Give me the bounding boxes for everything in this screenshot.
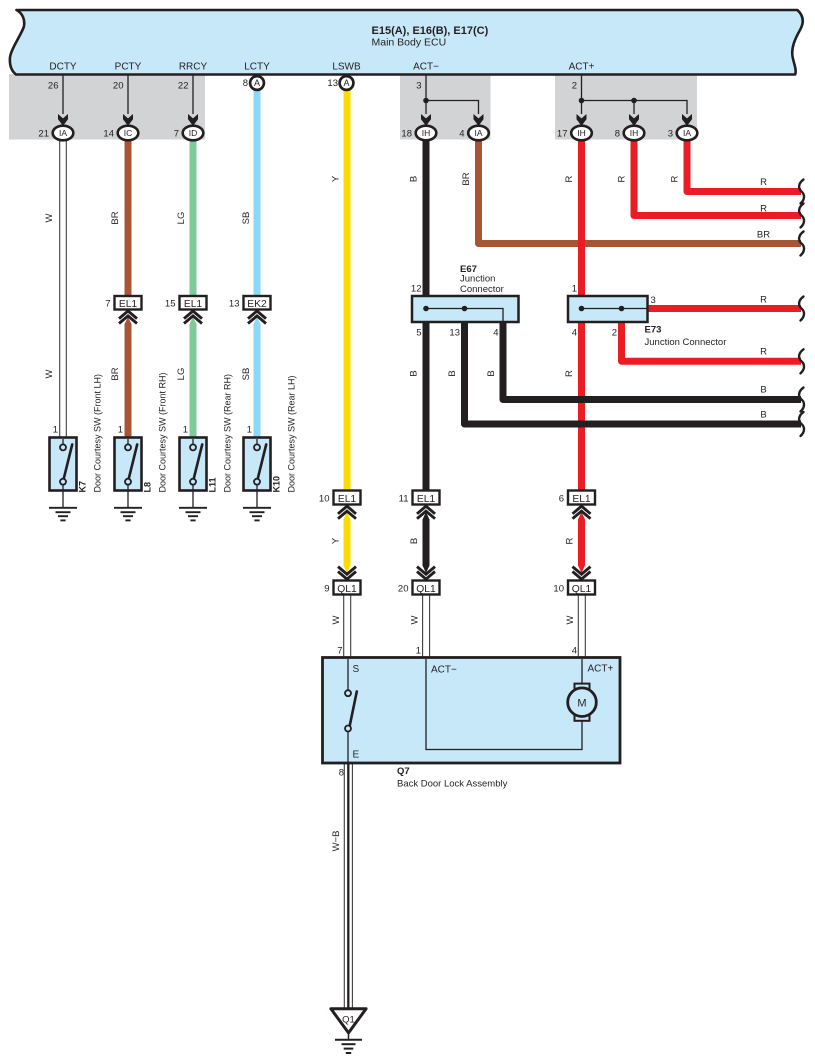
svg-text:IA: IA (683, 128, 691, 138)
svg-text:PCTY: PCTY (115, 62, 142, 73)
svg-text:R: R (760, 295, 767, 306)
svg-text:BR: BR (110, 367, 121, 380)
svg-text:1: 1 (572, 284, 577, 295)
svg-text:Door Courtesy SW (Rear LH): Door Courtesy SW (Rear LH) (287, 375, 297, 492)
svg-text:A: A (343, 78, 349, 88)
svg-text:E73: E73 (645, 325, 662, 336)
svg-text:11: 11 (399, 494, 409, 505)
svg-text:1: 1 (118, 425, 123, 436)
svg-text:W: W (565, 615, 576, 624)
svg-text:EL1: EL1 (119, 299, 138, 310)
svg-text:18: 18 (401, 129, 412, 140)
svg-text:26: 26 (48, 81, 59, 92)
svg-text:LCTY: LCTY (244, 62, 270, 73)
svg-text:1: 1 (53, 425, 58, 436)
svg-text:12: 12 (411, 284, 422, 295)
svg-text:BR: BR (110, 211, 121, 224)
svg-text:R: R (760, 204, 767, 215)
svg-text:22: 22 (178, 81, 189, 92)
svg-text:QL1: QL1 (572, 584, 592, 595)
svg-text:1: 1 (183, 425, 188, 436)
svg-text:ACT+: ACT+ (588, 664, 614, 675)
svg-text:14: 14 (103, 129, 114, 140)
svg-text:W−B: W−B (331, 831, 342, 852)
svg-text:4: 4 (572, 646, 577, 657)
svg-text:LSWB: LSWB (332, 62, 361, 73)
svg-text:Y: Y (331, 537, 342, 544)
svg-text:ACT−: ACT− (431, 665, 457, 676)
svg-text:7: 7 (337, 646, 342, 657)
svg-text:EK2: EK2 (247, 299, 267, 310)
svg-text:E: E (353, 750, 360, 761)
svg-text:Door Courtesy SW (Front LH): Door Courtesy SW (Front LH) (93, 374, 103, 493)
svg-text:17: 17 (557, 129, 568, 140)
svg-text:B: B (409, 176, 420, 182)
svg-text:Junction Connector: Junction Connector (645, 337, 727, 348)
svg-text:BR: BR (757, 230, 770, 241)
svg-text:S: S (353, 664, 360, 675)
svg-text:SB: SB (241, 368, 252, 381)
svg-text:R: R (565, 537, 576, 544)
svg-text:Door Courtesy SW (Rear RH): Door Courtesy SW (Rear RH) (223, 374, 233, 493)
svg-text:EL1: EL1 (338, 494, 357, 505)
svg-text:13: 13 (229, 299, 240, 310)
svg-text:4: 4 (493, 328, 498, 339)
svg-text:20: 20 (398, 584, 409, 595)
svg-text:Q7: Q7 (397, 766, 410, 777)
svg-text:B: B (760, 410, 766, 421)
svg-text:IH: IH (422, 128, 431, 138)
svg-text:Y: Y (331, 175, 342, 182)
svg-text:EL1: EL1 (184, 299, 203, 310)
svg-text:Door Courtesy SW (Front RH): Door Courtesy SW (Front RH) (158, 372, 168, 492)
svg-text:L8: L8 (143, 482, 153, 493)
svg-text:W: W (331, 615, 342, 624)
svg-text:EL1: EL1 (417, 494, 436, 505)
svg-text:1: 1 (247, 425, 252, 436)
svg-text:B: B (409, 538, 420, 544)
svg-text:2: 2 (612, 328, 617, 339)
svg-text:ID: ID (189, 128, 198, 138)
svg-text:IH: IH (577, 128, 586, 138)
svg-text:BR: BR (461, 172, 472, 185)
svg-text:R: R (617, 175, 628, 182)
svg-text:Q1: Q1 (342, 1015, 355, 1026)
svg-text:10: 10 (553, 584, 564, 595)
svg-text:5: 5 (416, 328, 421, 339)
svg-text:6: 6 (559, 494, 564, 505)
svg-text:R: R (670, 175, 681, 182)
svg-text:B: B (486, 370, 497, 376)
svg-text:15: 15 (165, 299, 176, 310)
svg-text:IC: IC (124, 128, 133, 138)
svg-text:M: M (577, 698, 586, 710)
svg-text:QL1: QL1 (416, 584, 436, 595)
svg-text:8: 8 (339, 768, 344, 779)
svg-text:7: 7 (174, 129, 179, 140)
svg-text:IH: IH (630, 128, 639, 138)
svg-text:Back Door Lock Assembly: Back Door Lock Assembly (397, 779, 508, 790)
svg-text:RRCY: RRCY (179, 62, 208, 73)
svg-text:13: 13 (327, 78, 338, 89)
svg-text:3: 3 (416, 81, 421, 92)
svg-text:QL1: QL1 (337, 584, 357, 595)
svg-text:LG: LG (176, 212, 187, 225)
svg-text:3: 3 (651, 295, 656, 306)
svg-text:DCTY: DCTY (49, 62, 77, 73)
svg-text:W: W (410, 615, 421, 624)
svg-text:E15(A), E16(B), E17(C): E15(A), E16(B), E17(C) (372, 25, 489, 37)
svg-text:7: 7 (105, 299, 110, 310)
svg-text:SB: SB (241, 212, 252, 225)
svg-text:ACT−: ACT− (413, 62, 439, 73)
svg-text:K10: K10 (272, 476, 282, 493)
svg-text:IA: IA (474, 128, 482, 138)
svg-text:W: W (44, 369, 55, 378)
svg-text:Connector: Connector (460, 284, 504, 295)
svg-text:R: R (564, 175, 575, 182)
svg-text:L11: L11 (208, 477, 218, 492)
svg-text:2: 2 (572, 81, 577, 92)
svg-text:4: 4 (459, 129, 464, 140)
svg-text:B: B (447, 370, 458, 376)
svg-text:Junction: Junction (460, 274, 495, 285)
svg-text:4: 4 (572, 328, 577, 339)
svg-text:10: 10 (319, 494, 330, 505)
svg-text:1: 1 (416, 646, 421, 657)
svg-text:W: W (44, 213, 55, 222)
svg-text:Main Body ECU: Main Body ECU (372, 37, 447, 49)
svg-text:ACT+: ACT+ (569, 62, 595, 73)
svg-text:K7: K7 (78, 481, 88, 493)
svg-text:21: 21 (38, 129, 49, 140)
svg-text:EL1: EL1 (572, 494, 591, 505)
svg-text:R: R (760, 177, 767, 188)
svg-text:B: B (760, 385, 766, 396)
svg-text:20: 20 (113, 81, 124, 92)
svg-text:IA: IA (59, 128, 67, 138)
svg-text:8: 8 (615, 129, 620, 140)
svg-text:R: R (564, 370, 575, 377)
svg-text:3: 3 (668, 129, 673, 140)
svg-text:B: B (409, 370, 420, 376)
svg-text:A: A (254, 78, 260, 88)
svg-text:9: 9 (324, 584, 329, 595)
svg-text:8: 8 (243, 78, 248, 89)
svg-text:R: R (760, 347, 767, 358)
svg-text:13: 13 (449, 328, 460, 339)
svg-text:LG: LG (176, 368, 187, 381)
